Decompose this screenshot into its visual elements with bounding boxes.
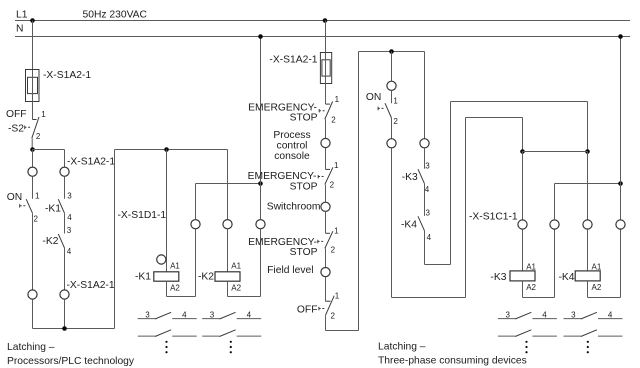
svg-text:-S2: -S2 [8, 123, 24, 134]
wire return bus to N-drop [196, 183, 261, 185]
wire fuse to S2 [32, 102, 34, 120]
svg-text:Latching –: Latching – [378, 342, 426, 353]
L1 rail [15, 10, 630, 21]
svg-text:4: 4 [425, 185, 430, 194]
caption latching right [378, 342, 527, 367]
wire K4 return riser upper [620, 184, 622, 220]
switch OFF (NC contact 1-2, center) [297, 292, 340, 321]
coil feed bus left [115, 149, 228, 151]
wire K1 return riser upper [195, 184, 197, 220]
aux contact K3 row1 (3-4) [498, 311, 557, 320]
wire E-stop1 to terminal [325, 119, 327, 138]
svg-text:3: 3 [145, 311, 150, 320]
svg-text:1: 1 [335, 292, 340, 301]
wire ON branch bottom run [392, 297, 466, 299]
contact K1 (NO 3-4) [45, 192, 72, 223]
wire ON branch long drop [391, 148, 393, 298]
svg-text:A1: A1 [170, 262, 180, 271]
svg-text:4: 4 [67, 213, 72, 222]
svg-text:3: 3 [571, 311, 576, 320]
contact K3 (NO 3-4) [402, 162, 431, 195]
terminal circle -X-S1A2-1 pin3 [60, 157, 115, 177]
wire K3K4 branch lower [424, 231, 426, 265]
wire K3 return riser lower [554, 229, 556, 297]
emergency-stop 1 (NC contact 1-2) [248, 95, 339, 125]
svg-text:-X-S1D1-1: -X-S1D1-1 [118, 210, 167, 221]
svg-text:3: 3 [426, 209, 431, 218]
aux contact K4 row1 (3-4) [564, 311, 623, 320]
wire to ON contact right [391, 90, 393, 103]
terminal circle -X-S1C1-1 pin2 [550, 220, 559, 229]
aux contact K1 row2 [138, 330, 197, 337]
svg-text:4: 4 [182, 311, 187, 320]
svg-text:Processors/PLC technology: Processors/PLC technology [7, 356, 135, 367]
wire to K3 contact [424, 148, 426, 169]
terminal circle -X-S1C1-1 pin3 [583, 220, 592, 229]
wire N drop left [260, 37, 262, 184]
svg-text:Field level: Field level [267, 265, 313, 276]
node L1 tap left [30, 18, 35, 23]
svg-text:STOP: STOP [290, 181, 318, 192]
wire K2 A2 down [227, 281, 229, 296]
wire K2 to lower terminal [64, 248, 66, 290]
svg-text:2: 2 [331, 311, 336, 320]
wire K3K4 bottom run [425, 264, 451, 266]
svg-text:1: 1 [334, 226, 339, 235]
svg-text:STOP: STOP [290, 247, 318, 258]
ellipsis dots K3 [525, 341, 527, 354]
terminal circle right pin3 [420, 139, 429, 148]
wire K3 coil feed [522, 152, 524, 220]
wire terminal to E-stop 2 [325, 148, 327, 170]
aux contact K4 row2 [564, 330, 623, 337]
terminal circle -X-S1A2-1 pin1 [28, 167, 37, 176]
wire right circuit left edge riser [358, 52, 360, 331]
svg-text:A2: A2 [170, 284, 180, 293]
wire to bottom bus [64, 299, 66, 328]
wire inner box top [466, 117, 523, 119]
svg-text:console: console [274, 151, 310, 162]
svg-text:OFF: OFF [297, 305, 318, 316]
svg-text:4: 4 [427, 233, 432, 242]
svg-text:Latching –: Latching – [7, 342, 55, 353]
wire to ON contact [32, 176, 34, 199]
svg-text:control: control [277, 141, 308, 152]
wire junction to K1K2 branch [33, 149, 65, 151]
coil K1 [135, 262, 180, 293]
wire K3 A2 down [522, 281, 524, 298]
wire to K3 coil [522, 229, 524, 271]
svg-text:-K3: -K3 [490, 272, 506, 283]
svg-text:OFF: OFF [6, 109, 27, 120]
aux contact K1 row1 (3-4) [138, 311, 197, 320]
svg-text:Three-phase consuming devices: Three-phase consuming devices [378, 356, 527, 367]
wire terminal to E-stop 3 [325, 211, 327, 233]
ellipsis dots K2 [230, 341, 232, 354]
N rail [15, 24, 630, 37]
wire K3 return riser upper [554, 184, 556, 220]
svg-text:-K1: -K1 [135, 272, 151, 283]
terminal circle right pin1 [387, 81, 396, 90]
node K3 feed junction [520, 149, 525, 154]
svg-text:2: 2 [34, 214, 39, 223]
node S2 bottom junction [30, 147, 35, 152]
wire E-stop3 to terminal [325, 249, 327, 268]
wire K3 return horizontal [523, 297, 555, 299]
svg-text:Switchroom: Switchroom [267, 201, 321, 212]
switch S2 (OFF, NC contact 1-2) [6, 109, 46, 141]
terminal circle process console [273, 130, 330, 162]
svg-text:2: 2 [393, 117, 398, 126]
node L1 tap center [323, 18, 328, 23]
svg-text:1: 1 [41, 110, 46, 119]
wire OFF to bottom [325, 315, 327, 330]
caption latching left [7, 342, 135, 367]
node N tap left [258, 34, 263, 39]
svg-text:-X-S1A2-1: -X-S1A2-1 [43, 70, 91, 81]
wire N drop right [620, 37, 622, 184]
wire right circuit top bus [359, 51, 425, 53]
wire outer box drop to node [587, 102, 589, 152]
svg-text:1: 1 [393, 97, 398, 106]
terminal circle -X-S1A2-1 pin2 [28, 290, 37, 299]
wire K1 to K2 contact [64, 213, 66, 233]
svg-text:-K2: -K2 [198, 272, 214, 283]
wire S2 to junction [31, 138, 33, 149]
node ON branch tap [389, 49, 394, 54]
wire center column from L1 to fuse [325, 21, 327, 53]
terminal circle -X-S1D1-1 pin3 [223, 220, 232, 229]
svg-text:2: 2 [36, 132, 41, 141]
bottom bus left [33, 328, 115, 330]
svg-text:4: 4 [608, 311, 613, 320]
terminal circle -X-S1D1-1 pin4 [256, 220, 265, 229]
svg-text:STOP: STOP [290, 112, 318, 123]
svg-text:1: 1 [334, 161, 339, 170]
svg-text:A2: A2 [231, 284, 241, 293]
wire K1 coil branch [166, 150, 168, 272]
terminal circle switchroom [267, 201, 330, 212]
node bottom bus junction [62, 326, 67, 331]
node N tap right [618, 34, 623, 39]
wire K2 return riser lower [260, 229, 262, 297]
wire K2 return riser upper [260, 184, 262, 220]
wire K1K2 branch upper [64, 150, 66, 168]
svg-text:-K4: -K4 [559, 272, 575, 283]
svg-text:A1: A1 [526, 263, 536, 272]
svg-text:1: 1 [335, 95, 340, 104]
svg-text:A1: A1 [592, 263, 602, 272]
switch ON (NO contact 1-2, left) [7, 192, 40, 224]
wire inner box drop to node [522, 118, 524, 152]
wire K2 return horizontal [228, 296, 261, 298]
svg-text:3: 3 [67, 192, 72, 201]
svg-text:2: 2 [330, 180, 335, 189]
svg-text:-X-S1C1-1: -X-S1C1-1 [469, 212, 518, 223]
terminal circle -X-S1C1-1 pin4 [616, 220, 625, 229]
wire to bottom bus [32, 299, 34, 328]
svg-text:3: 3 [210, 311, 215, 320]
wire return bus right [555, 183, 621, 185]
wire left column from L1 to fuse [32, 21, 34, 71]
wire ON branch riser [465, 118, 467, 298]
wire outer box riser [450, 102, 452, 265]
terminal circle right pin2 [387, 139, 396, 148]
ellipsis dots K4 [587, 341, 589, 354]
svg-text:-K4: -K4 [401, 220, 417, 231]
node K1 coil branch [164, 147, 169, 152]
wire K2 coil branch upper [227, 150, 229, 220]
wire K4 coil feed [587, 152, 589, 220]
ellipsis dots K1 [165, 341, 167, 354]
fuse -X-S1A2-1 (center) [269, 53, 331, 84]
svg-text:-X-S1A2-1: -X-S1A2-1 [269, 55, 317, 66]
wire K1 return horizontal [167, 296, 196, 298]
svg-text:A1: A1 [231, 262, 241, 271]
svg-text:Process: Process [273, 130, 310, 141]
coil K2 [198, 262, 242, 293]
svg-text:1: 1 [35, 192, 40, 201]
coil K4 [559, 263, 602, 292]
terminal circle -X-S1D1-1 pin2 [191, 220, 200, 229]
svg-text:ON: ON [366, 92, 381, 103]
svg-text:N: N [16, 24, 23, 35]
emergency-stop 3 (NC contact 1-2) [248, 226, 339, 258]
svg-text:4: 4 [247, 311, 252, 320]
wire K1 A2 down [166, 281, 168, 296]
wire bottom to right circuit [326, 330, 359, 332]
contact K4 (NO 3-4) [401, 209, 432, 242]
wire K4 return riser lower [620, 229, 622, 297]
terminal circle -X-S1D1-1 pin1 (offset) [157, 255, 166, 264]
svg-text:2: 2 [331, 116, 336, 125]
svg-text:-K3: -K3 [402, 172, 418, 183]
svg-text:4: 4 [542, 311, 547, 320]
node K4 feed junction [585, 149, 590, 154]
svg-text:2: 2 [331, 246, 336, 255]
wire K3 to K4 contact [424, 184, 426, 216]
svg-text:-X-S1A2-1: -X-S1A2-1 [67, 157, 115, 168]
wire ON to terminal [391, 118, 393, 139]
terminal circle -X-S1C1-1 pin1 [518, 220, 527, 229]
wire between feed nodes [523, 151, 588, 153]
aux contact K3 row2 [498, 330, 557, 337]
svg-text:50Hz 230VAC: 50Hz 230VAC [83, 10, 148, 21]
wire K4 A2 down [587, 281, 589, 298]
terminal circle -X-S1A2-1 pin4 [60, 280, 115, 299]
svg-text:3: 3 [67, 226, 72, 235]
wire to K4 coil [587, 229, 589, 271]
svg-text:-X-S1A2-1: -X-S1A2-1 [67, 280, 115, 291]
node return bus junction right [618, 181, 623, 186]
emergency-stop 2 (NC contact 1-2) [248, 161, 339, 192]
svg-text:ON: ON [7, 192, 22, 203]
wire terminal to OFF [325, 277, 327, 302]
svg-text:-K2: -K2 [42, 236, 58, 247]
wire K2 coil branch lower [227, 229, 229, 272]
node return bus junction [258, 181, 263, 186]
fuse -X-S1A2-1 (left) [26, 70, 92, 102]
wire K3K4 branch upper [424, 52, 426, 139]
svg-text:A2: A2 [526, 283, 536, 292]
wire ON to lower terminal [32, 213, 34, 290]
wire riser to coil feed bus [114, 150, 116, 329]
aux contact K2 row1 (3-4) [202, 311, 261, 320]
wire outer box top [451, 101, 588, 103]
wire K4 return horizontal [588, 297, 621, 299]
wire K1 return riser lower [195, 229, 197, 297]
contact K2 (NO 3-4) [42, 226, 71, 256]
wire ON branch upper [32, 150, 34, 168]
wire fuse to E-stop 1 [325, 84, 327, 105]
svg-text:3: 3 [506, 311, 511, 320]
switch ON (NO contact 1-2, right) [366, 92, 399, 126]
aux contact K2 row2 [202, 330, 261, 337]
svg-text:L1: L1 [16, 10, 28, 21]
wire to K1 contact [64, 176, 66, 199]
wire E-stop2 to terminal [325, 185, 327, 203]
svg-text:4: 4 [67, 247, 72, 256]
svg-text:A2: A2 [592, 283, 602, 292]
coil K3 [490, 263, 536, 292]
wire ON-right branch upper [391, 52, 393, 82]
svg-text:-K1: -K1 [45, 203, 61, 214]
terminal circle field level [267, 265, 330, 277]
svg-text:3: 3 [425, 162, 430, 171]
